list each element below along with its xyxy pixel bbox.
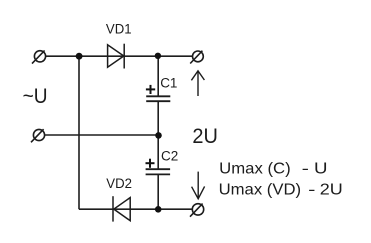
- svg-text:VD1: VD1: [106, 20, 132, 36]
- svg-text:2U: 2U: [192, 124, 218, 148]
- svg-text:C1: C1: [160, 75, 177, 90]
- svg-text:-: -: [308, 182, 315, 199]
- svg-text:VD2: VD2: [106, 175, 132, 191]
- svg-text:U: U: [314, 160, 328, 177]
- svg-text:Umax (VD): Umax (VD): [219, 182, 302, 199]
- svg-text:~U: ~U: [23, 85, 48, 108]
- svg-text:2U: 2U: [320, 182, 343, 199]
- svg-text:-: -: [302, 160, 309, 177]
- svg-text:Umax (C): Umax (C): [219, 160, 291, 177]
- svg-text:C2: C2: [161, 149, 178, 164]
